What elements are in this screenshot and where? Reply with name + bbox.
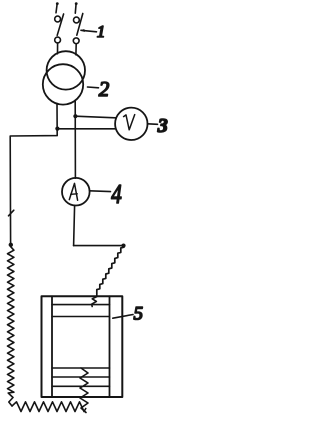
label 1 leader arrow [81, 30, 97, 32]
junction dot left lead [55, 127, 59, 131]
label 4 leader [90, 190, 111, 193]
label 5 leader [113, 315, 133, 319]
vessel 5 inner left wall [51, 296, 53, 397]
junction dot right lead [73, 114, 77, 118]
vessel 5 bottom plate line b [52, 376, 110, 378]
wire to heater top [74, 245, 124, 247]
switch S1 right pole top terminal [74, 17, 80, 23]
svg-text:3: 3 [157, 115, 168, 137]
vessel 5 outer wall [42, 296, 123, 397]
junction dot heater top [121, 244, 125, 248]
vessel 5 top plate line b [52, 316, 110, 318]
wire left switch to transformer [57, 43, 59, 54]
bottom connecting zigzag wire [12, 402, 86, 412]
wire transformer right lead down to ammeter [74, 100, 76, 178]
ammeter U4 body [62, 178, 90, 206]
voltmeter V symbol [124, 115, 135, 130]
vessel 5 inner right wall [109, 296, 111, 397]
tick mark on left wire [9, 210, 14, 216]
svg-text:2: 2 [99, 77, 110, 101]
switch S1 right pole blade [77, 14, 83, 36]
svg-text:5: 5 [134, 304, 144, 325]
switch S1 right pole top stub [74, 4, 77, 14]
rheostat R left vertical zigzag [8, 247, 14, 406]
heater lead inside vessel [92, 294, 97, 307]
vessel 5 bottom plate line c [52, 385, 110, 387]
transformer T secondary winding [43, 64, 83, 104]
heater lead stair zigzag into vessel [97, 247, 124, 294]
vessel 5 top plate line a [52, 304, 110, 306]
ammeter A symbol [69, 183, 77, 200]
wire to voltmeter bottom terminal [57, 128, 115, 130]
wire to voltmeter top terminal [75, 116, 115, 118]
switch S1 left pole top terminal [55, 16, 61, 22]
junction dot rheostat top [9, 243, 13, 247]
svg-text:4: 4 [111, 179, 122, 209]
transformer T primary winding [47, 51, 85, 89]
label 3 leader [148, 123, 158, 126]
switch S1 left pole top stub [56, 4, 57, 13]
wire ammeter bottom lead [74, 205, 75, 245]
switch S1 right pole bottom terminal [73, 38, 79, 44]
heater bottom zigzag through vessel bottom [80, 368, 88, 413]
switch S1 left pole blade [57, 14, 63, 35]
wire right switch to transformer [75, 44, 77, 55]
label 2 leader [88, 86, 99, 89]
switch S1 left pole bottom terminal [55, 37, 61, 43]
svg-text:1: 1 [97, 22, 106, 41]
voltmeter U3 body [115, 108, 147, 140]
wire transformer left lead down and left [10, 104, 57, 245]
vessel 5 bottom plate line a [52, 367, 110, 369]
